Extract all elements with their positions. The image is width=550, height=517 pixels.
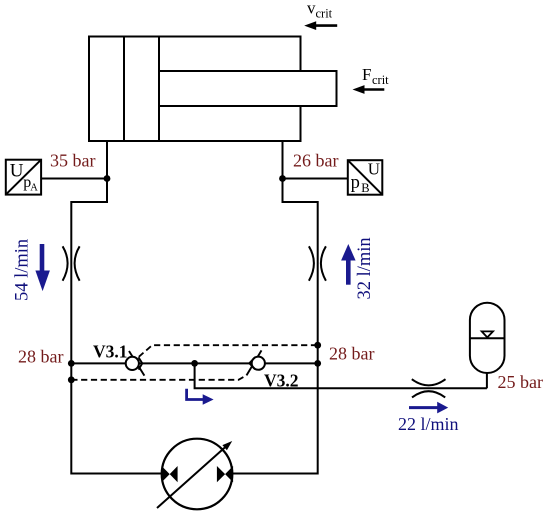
svg-text:crit: crit <box>316 6 333 20</box>
svg-text:32 l/min: 32 l/min <box>355 237 375 299</box>
svg-text:54 l/min: 54 l/min <box>13 239 33 301</box>
svg-text:28 bar: 28 bar <box>329 344 374 364</box>
svg-text:U: U <box>10 161 24 182</box>
svg-text:p: p <box>351 173 360 193</box>
svg-text:25 bar: 25 bar <box>498 372 543 392</box>
svg-text:B: B <box>361 181 369 195</box>
svg-text:22 l/min: 22 l/min <box>398 414 459 434</box>
svg-text:V3.1: V3.1 <box>93 341 128 361</box>
svg-text:28 bar: 28 bar <box>18 347 63 367</box>
svg-text:crit: crit <box>372 73 389 87</box>
svg-text:U: U <box>368 160 380 179</box>
svg-text:V3.2: V3.2 <box>264 370 299 390</box>
svg-text:A: A <box>30 183 38 194</box>
svg-text:35 bar: 35 bar <box>50 151 95 171</box>
svg-text:F: F <box>362 65 371 84</box>
svg-text:26 bar: 26 bar <box>293 151 338 171</box>
